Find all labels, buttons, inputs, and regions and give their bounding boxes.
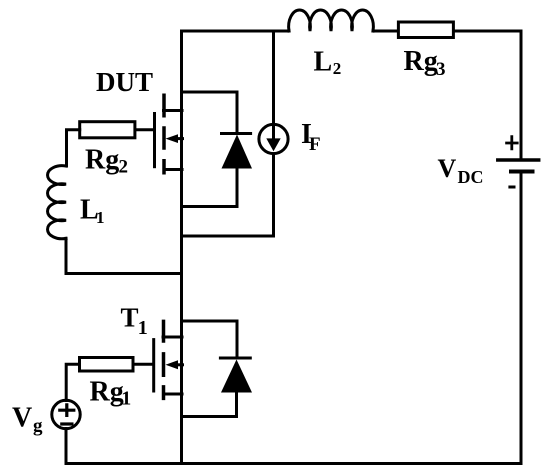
svg-text:T: T (121, 303, 139, 333)
svg-text:g: g (33, 416, 43, 437)
svg-text:F: F (309, 134, 321, 155)
svg-text:1: 1 (138, 317, 148, 339)
svg-text:3: 3 (436, 59, 446, 80)
svg-text:1: 1 (96, 208, 105, 227)
svg-text:Rg: Rg (90, 376, 124, 407)
svg-text:Rg: Rg (85, 145, 119, 176)
svg-text:Rg: Rg (404, 46, 438, 77)
svg-text:2: 2 (119, 157, 129, 178)
svg-text:DC: DC (458, 167, 484, 187)
svg-text:2: 2 (333, 59, 342, 78)
svg-text:V: V (12, 402, 32, 433)
svg-text:V: V (438, 154, 457, 183)
svg-text:DUT: DUT (96, 67, 153, 97)
svg-text:1: 1 (121, 388, 131, 410)
svg-text:L: L (314, 47, 333, 78)
